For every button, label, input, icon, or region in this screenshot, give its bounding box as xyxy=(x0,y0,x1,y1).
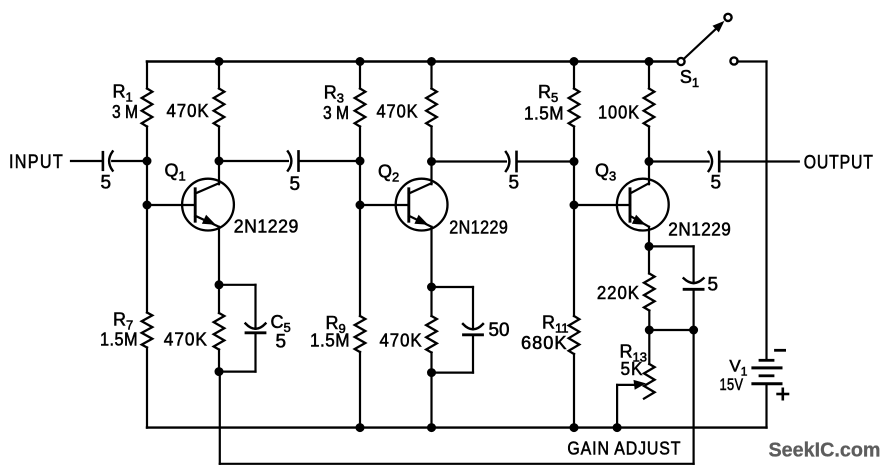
svg-text:1.5M: 1.5M xyxy=(100,330,138,350)
svg-text:SeekIC.com: SeekIC.com xyxy=(769,439,881,462)
node junction top rail / 100K column xyxy=(645,58,653,66)
capacitor 50pf (Q2 emitter bypass) xyxy=(463,324,483,329)
svg-text:OUTPUT: OUTPUT xyxy=(804,153,874,174)
resistor R11 680K xyxy=(569,316,580,354)
wire R5 to Q3 base node xyxy=(573,127,575,317)
svg-text:INPUT: INPUT xyxy=(9,152,64,173)
wire 100K column upper xyxy=(648,62,650,89)
wire Q2 collector node to interstage cap2 xyxy=(432,160,506,162)
wire Q1 collector node to interstage cap xyxy=(219,160,288,162)
node Q2 emitter ground junction xyxy=(428,424,436,432)
wire R3 column upper xyxy=(359,62,361,89)
svg-text:3 M: 3 M xyxy=(112,102,138,122)
resistor 220K (Q3 emitter) xyxy=(644,274,655,311)
wire top supply rail xyxy=(147,60,677,63)
svg-text:5: 5 xyxy=(101,173,112,194)
wire Q1 emitter resistor to bottom node xyxy=(218,350,220,372)
resistor 470K (Q1 emitter) xyxy=(214,313,225,350)
wire gain adjust line xyxy=(220,463,694,465)
svg-text:2N1229: 2N1229 xyxy=(668,220,731,240)
svg-text:Q2: Q2 xyxy=(378,162,399,185)
node bypass cap bottom junction xyxy=(690,326,698,334)
node Q1 collector junction xyxy=(215,157,223,165)
svg-text:470K: 470K xyxy=(164,330,208,350)
node interstage1/Q2 base bias junction xyxy=(356,157,364,165)
wire Q3 emitter down xyxy=(648,227,650,274)
wire 470K to Q1 collector node xyxy=(218,127,220,162)
wire bottom ground rail xyxy=(147,426,767,428)
node Q3 base junction xyxy=(570,201,578,209)
wire interstage cap1 to Q2 base node xyxy=(299,160,360,162)
node 220K bottom junction xyxy=(645,326,653,334)
svg-text:680K: 680K xyxy=(521,333,568,353)
node junction top rail / R5 column xyxy=(570,58,578,66)
wire 50pf bottom branch xyxy=(472,335,474,373)
svg-text:3 M: 3 M xyxy=(323,103,349,123)
node Q3 emitter bypass top xyxy=(645,242,653,250)
resistor R1 3M xyxy=(142,89,153,127)
node Q1 emitter bypass bottom xyxy=(215,368,223,376)
wire interstage cap2 to Q3 base node xyxy=(517,160,574,162)
wire R11 to ground rail xyxy=(573,354,575,428)
switch S1 blade xyxy=(684,24,722,59)
battery V1 plates xyxy=(753,360,781,383)
wire R5 column upper xyxy=(573,62,575,89)
switch S1 throw terminal (open) xyxy=(724,14,731,21)
battery plus sign xyxy=(778,389,788,399)
wire Q1 emitter to bypass node xyxy=(218,227,220,313)
node input/base bias junction xyxy=(143,157,151,165)
svg-text:5: 5 xyxy=(711,173,722,194)
node Q2 base junction xyxy=(356,201,364,209)
svg-text:470K: 470K xyxy=(380,331,423,351)
node Q2 emitter bypass bottom xyxy=(428,369,436,377)
node junction top rail / R3 column xyxy=(356,58,364,66)
node Q2 emitter bypass top xyxy=(428,283,436,291)
svg-text:15V: 15V xyxy=(720,375,744,394)
resistor 470K (stage2 collector load) xyxy=(426,89,437,127)
svg-text:50: 50 xyxy=(489,320,510,341)
wire input cap to base node xyxy=(112,160,147,162)
wire R3 to Q2 base node xyxy=(359,127,361,317)
svg-text:Q1: Q1 xyxy=(165,161,186,184)
node junction top rail / 470K stage2 xyxy=(428,58,436,66)
transistor Q2 (Q2) 2N1229 xyxy=(360,161,448,231)
resistor 100K (stage3 collector load) xyxy=(644,89,655,127)
wire 220K to bottom node xyxy=(648,311,650,331)
transistor Q3 (Q3) 2N1229 xyxy=(574,161,669,231)
svg-text:1.5M: 1.5M xyxy=(524,104,564,124)
node R13 wiper ground junction xyxy=(613,424,621,432)
wire 5pf bottom to node xyxy=(692,290,694,330)
wire output cap to OUTPUT terminal (crosses battery line) xyxy=(720,160,799,162)
svg-text:1.5M: 1.5M xyxy=(310,331,350,351)
capacitor C5 (5pf emitter bypass Q1) xyxy=(246,324,266,329)
wire Q2 emitter to bypass node xyxy=(430,227,432,316)
wire R13 wiper arm xyxy=(616,385,618,428)
resistor R5 1.5M xyxy=(569,89,580,127)
wire 5pf branch (Q3 bypass) top xyxy=(649,245,694,247)
node Q2 collector junction xyxy=(428,158,436,166)
capacitor interstage 2 (5pf) xyxy=(506,152,510,171)
node R9 ground junction xyxy=(356,424,364,432)
switch S1 output terminal xyxy=(730,57,737,64)
resistor R13 5K rheostat xyxy=(648,330,650,364)
svg-text:S1: S1 xyxy=(680,67,699,90)
wire Q1 emitter node down to gain-adjust line (crosses ground rail) xyxy=(219,372,221,464)
wire battery column down xyxy=(765,62,767,359)
wire Q2 emitter resistor to ground rail xyxy=(430,353,432,428)
svg-text:100K: 100K xyxy=(598,103,640,123)
wire 100K to Q3 collector node xyxy=(648,127,650,162)
resistor 470K (stage1 collector load) xyxy=(214,89,225,127)
svg-text:5: 5 xyxy=(290,174,301,195)
node Q1 emitter bypass top xyxy=(215,281,223,289)
transistor Q1 (Q1) 2N1229 xyxy=(147,161,234,231)
R13 wiper arrowhead xyxy=(634,380,647,390)
svg-text:220K: 220K xyxy=(597,283,640,303)
wire 220K node down to gain-adjust line (crosses ground rail) xyxy=(692,330,694,464)
wire left vertical below R7 xyxy=(146,348,148,428)
wire Q3 collector node to output cap xyxy=(649,160,709,162)
svg-text:5: 5 xyxy=(509,173,520,194)
capacitor output coupling 5pf xyxy=(709,152,713,171)
svg-text:2N1229: 2N1229 xyxy=(234,217,299,237)
switch S1 pole terminal xyxy=(677,58,684,65)
wire 470K bias column stage2 upper xyxy=(430,62,432,89)
capacitor input coupling 5pf xyxy=(102,152,105,170)
node Q3 collector junction xyxy=(645,158,653,166)
resistor R3 3M xyxy=(355,89,366,127)
wire C5 branch top xyxy=(219,284,256,286)
wire bottom node horizontal xyxy=(649,329,693,331)
wire left vertical (input bias column) upper xyxy=(146,62,148,89)
capacitor 5pf (Q3 emitter bypass) xyxy=(684,278,704,283)
battery minus sign xyxy=(776,349,785,352)
svg-text:5: 5 xyxy=(276,332,287,353)
resistor R7 1.5M xyxy=(142,313,153,348)
wire S1 to battery column xyxy=(737,60,766,62)
wire 50pf branch top xyxy=(432,286,474,288)
svg-text:R5: R5 xyxy=(538,82,558,105)
node R11 ground junction xyxy=(570,424,578,432)
switch S1 blade arrowhead xyxy=(713,21,725,33)
wire C5 bottom branch xyxy=(254,333,256,372)
wire battery to ground rail xyxy=(765,384,767,428)
resistor 470K (Q2 emitter) xyxy=(426,316,437,353)
node junction top rail / 470K stage1 xyxy=(215,58,223,66)
resistor R9 1.5M xyxy=(355,316,366,352)
wire 470K to Q2 collector node xyxy=(430,127,432,162)
svg-text:Q3: Q3 xyxy=(595,161,616,184)
svg-text:5: 5 xyxy=(708,275,719,296)
wire R9 to ground rail xyxy=(359,352,361,428)
node base junction stage1 xyxy=(143,201,151,209)
svg-text:470K: 470K xyxy=(377,102,419,122)
svg-text:5K: 5K xyxy=(621,359,644,379)
capacitor interstage 1 (5pf) xyxy=(288,151,292,170)
wire input lead xyxy=(71,160,103,162)
wire left vertical between R1 and R7 xyxy=(146,127,148,313)
svg-text:2N1229: 2N1229 xyxy=(449,218,508,238)
node interstage2/Q3 base bias junction xyxy=(570,158,578,166)
wire 470K bias column stage1 upper xyxy=(218,62,220,89)
svg-text:470K: 470K xyxy=(167,101,210,121)
svg-text:GAIN ADJUST: GAIN ADJUST xyxy=(567,439,681,459)
